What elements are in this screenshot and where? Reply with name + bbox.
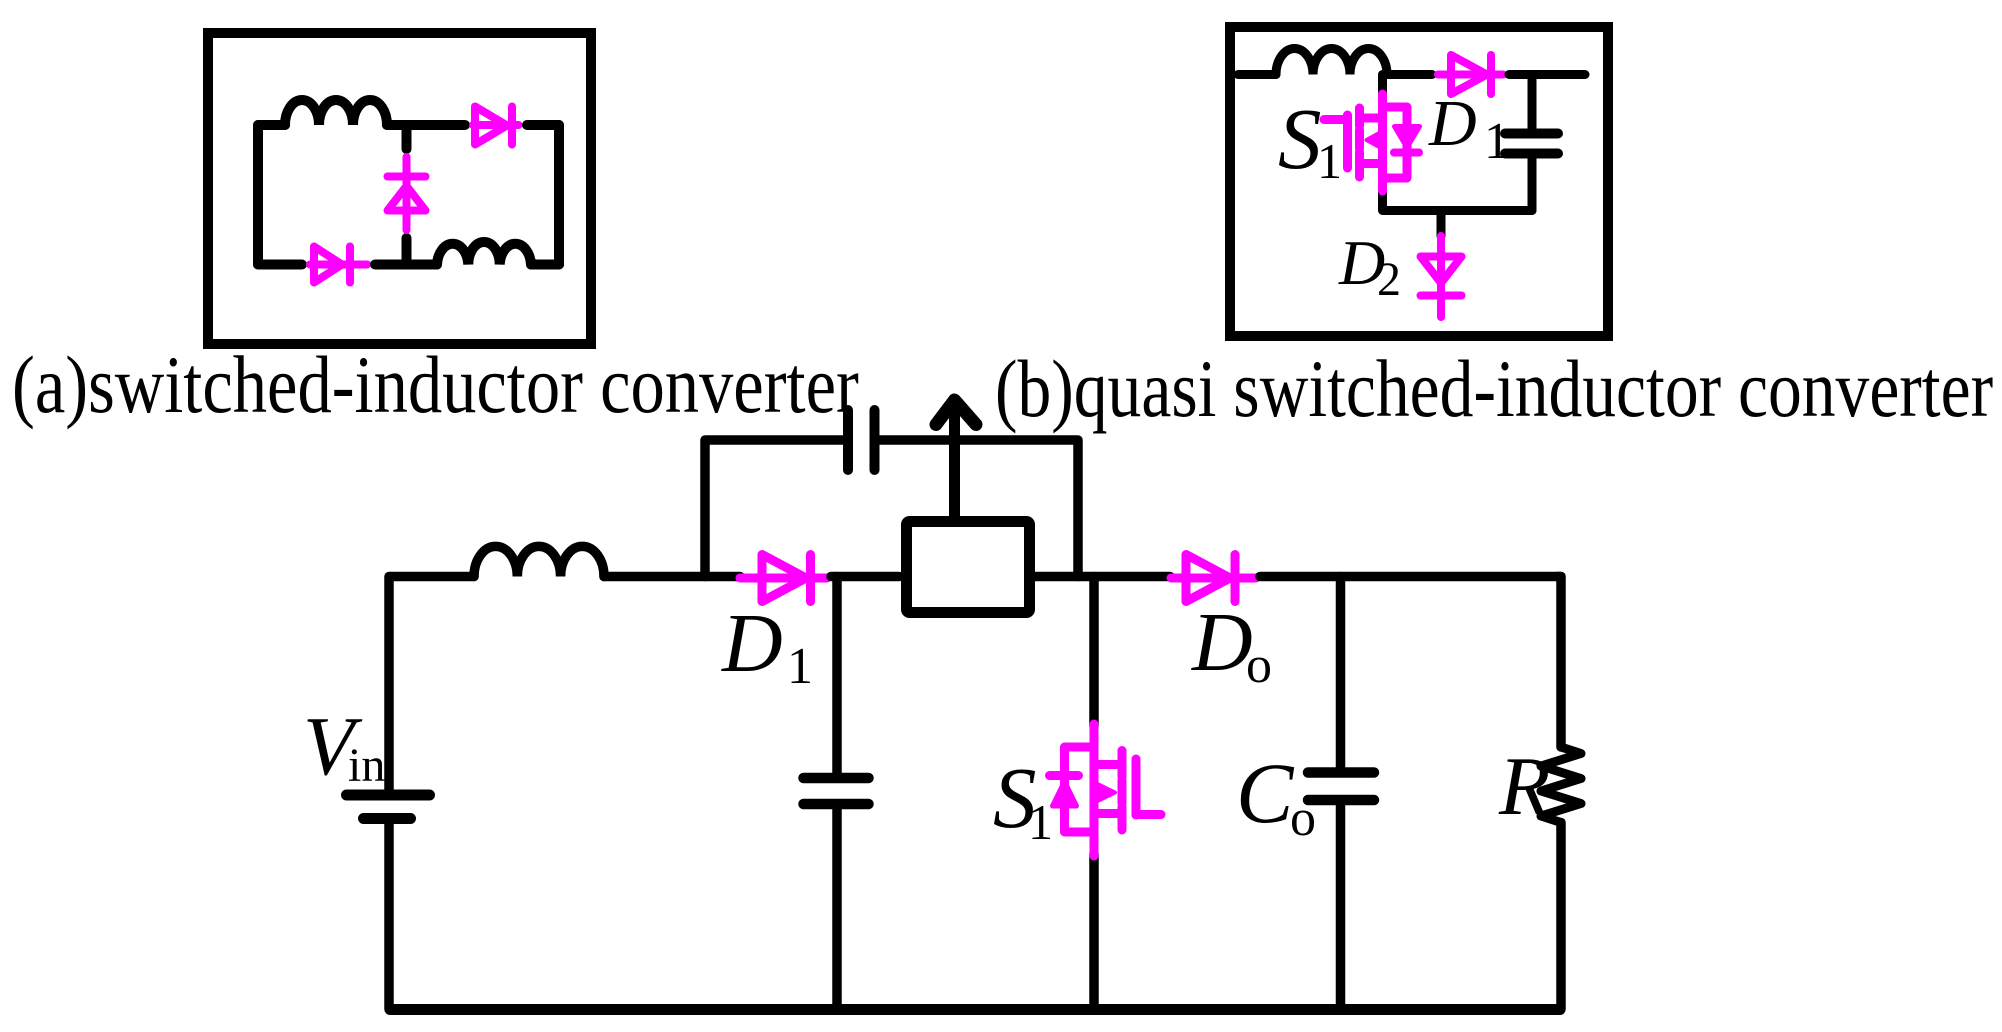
- resistor R zigzag: [1541, 747, 1581, 823]
- wire top-left box (a): [258, 120, 285, 130]
- wire Do to right corner: [1260, 572, 1561, 582]
- driver box: [907, 522, 1030, 613]
- gate drive arrow head: [936, 400, 976, 425]
- svg-text:o: o: [1290, 790, 1316, 847]
- diode D2 box (b), pointing down: [1421, 236, 1462, 317]
- svg-text:1: 1: [1484, 113, 1510, 170]
- svg-text:R: R: [1498, 740, 1550, 833]
- svg-text:D: D: [721, 597, 783, 690]
- snubber capacitor plates (horizontal): [843, 410, 853, 470]
- wire inductor to D1: [604, 572, 740, 582]
- gate drive arrow shaft: [949, 406, 960, 516]
- svg-text:o: o: [1246, 637, 1272, 694]
- inductor box (b): [1276, 49, 1387, 75]
- diode bottom-left box (a): [310, 247, 367, 283]
- wire D1 to right stub box (b): [1509, 70, 1585, 79]
- snubber loop: top wire right, right riser: [880, 440, 1079, 577]
- diode center vertical box (a), pointing up: [388, 157, 426, 230]
- wire top-left box (b): [1238, 70, 1276, 79]
- mosfet S1 box (b): source lead handled by bottom wire; magenta body: [1324, 94, 1407, 191]
- svg-text:1: 1: [1028, 794, 1053, 850]
- wire top rail: Vin corner to inductor: [389, 577, 474, 791]
- wire driver box to S1 junction and Do: [1035, 572, 1170, 582]
- wire right side box (a): [554, 125, 564, 265]
- wire bottom-middle box (a): [375, 260, 437, 270]
- wire D1 to driver box: [831, 572, 899, 582]
- inductor main: [474, 546, 604, 576]
- svg-text:D: D: [1191, 596, 1253, 689]
- capacitor Co top lead: [1336, 577, 1346, 768]
- svg-text:(b)quasi switched-inductor con: (b)quasi switched-inductor converter: [995, 344, 1993, 435]
- battery Vin plates: [347, 790, 430, 801]
- mosfet S1 box (b): arrow: [1367, 132, 1382, 148]
- mosfet S1 box (b): drain lead: [1378, 75, 1387, 97]
- mosfet S1 main: magenta body: [1050, 724, 1162, 856]
- inductor bottom box (a): [437, 242, 531, 265]
- wire bottom-left box (a): [258, 260, 302, 270]
- svg-text:D: D: [1428, 87, 1477, 160]
- frame of box (b): [1230, 27, 1608, 336]
- inductor top box (a): [285, 100, 387, 125]
- bottom rail: [390, 1004, 1560, 1015]
- resistor R bottom lead: [1556, 823, 1566, 1010]
- wire left side box (a): [253, 125, 263, 265]
- wire top-middle box (a): [387, 120, 465, 130]
- frame of box (a): [208, 33, 591, 344]
- wire inductor to D1 box (b): [1387, 70, 1432, 79]
- svg-text:C: C: [1236, 745, 1295, 841]
- diode D1 main: [740, 555, 827, 602]
- snubber loop: left riser, top wire to capacitor: [705, 440, 844, 577]
- wire stub to D2 box (b): [1437, 211, 1446, 237]
- middle capacitor plates: [804, 773, 869, 784]
- capacitor box (b) top lead: [1528, 75, 1537, 129]
- mosfet S1 main: drain lead: [1089, 577, 1099, 727]
- mosfet S1 box (b): body diode: [1395, 127, 1420, 148]
- svg-text:in: in: [348, 739, 385, 792]
- diode top-right box (a): [473, 107, 519, 145]
- wire right leg top (corner to resistor): [1557, 577, 1561, 748]
- middle capacitor top lead: [832, 577, 842, 774]
- battery Vin bottom lead: [384, 824, 394, 1009]
- wire after top-right diode box (a): [527, 120, 559, 130]
- svg-text:S: S: [1278, 90, 1322, 187]
- middle capacitor bottom lead: [832, 809, 842, 1009]
- capacitor box (b) plates: [1505, 129, 1558, 139]
- svg-text:1: 1: [1317, 133, 1342, 189]
- wire bottom-right box (a): [531, 260, 559, 270]
- diode Do main: [1171, 555, 1256, 602]
- mosfet S1 main: body diode: [1053, 782, 1077, 807]
- svg-text:(a)switched-inductor converter: (a)switched-inductor converter: [12, 340, 859, 430]
- capacitor Co bottom lead: [1336, 806, 1346, 1010]
- wire center vertical box (a): [402, 125, 412, 149]
- diode D1 box (b): [1438, 55, 1503, 94]
- mosfet S1 main: source lead: [1089, 854, 1099, 1009]
- svg-text:1: 1: [787, 638, 813, 695]
- capacitor Co plates: [1308, 767, 1374, 778]
- mosfet S1 main: arrow: [1096, 783, 1116, 802]
- wire bottom box (b): [1383, 191, 1533, 211]
- svg-text:2: 2: [1377, 253, 1401, 306]
- capacitor box (b) bottom lead: [1528, 159, 1537, 211]
